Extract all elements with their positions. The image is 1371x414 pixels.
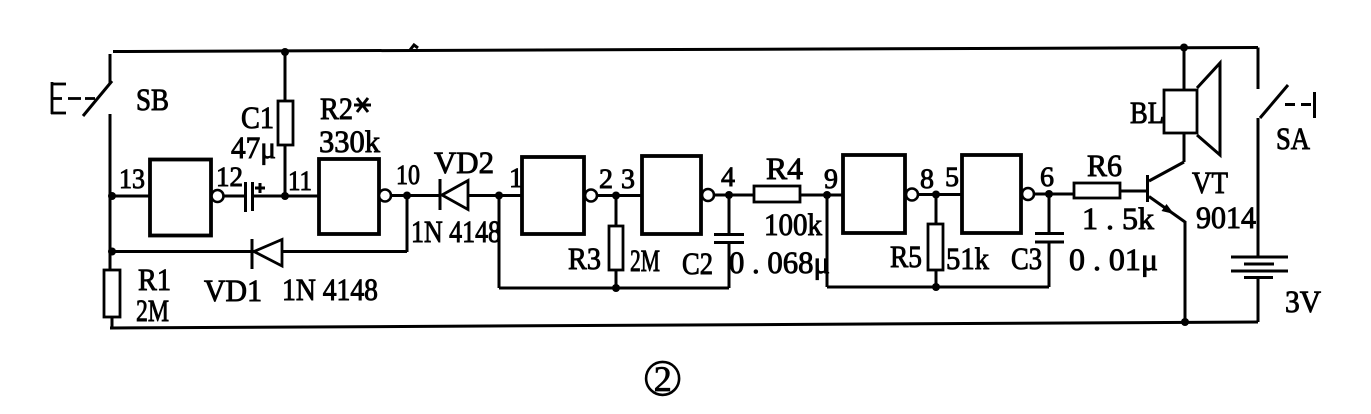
svg-text:4: 4 xyxy=(721,162,735,193)
svg-text:47μ: 47μ xyxy=(231,130,276,165)
svg-text:12: 12 xyxy=(216,162,243,193)
svg-text:BL: BL xyxy=(1130,95,1164,130)
svg-text:9: 9 xyxy=(824,164,838,195)
svg-text:VD1: VD1 xyxy=(204,273,262,308)
svg-text:9014: 9014 xyxy=(1196,200,1256,235)
svg-text:1: 1 xyxy=(509,163,523,194)
svg-text:2: 2 xyxy=(654,359,672,399)
svg-text:330k: 330k xyxy=(319,124,380,159)
svg-text:VT: VT xyxy=(1192,165,1228,200)
svg-text:2M: 2M xyxy=(136,293,169,328)
svg-text:C2: C2 xyxy=(682,246,713,281)
svg-text:10: 10 xyxy=(396,160,420,191)
svg-text:2M: 2M xyxy=(630,243,660,278)
svg-text:100k: 100k xyxy=(764,207,822,242)
svg-text:C3: C3 xyxy=(1011,241,1042,276)
svg-text:3: 3 xyxy=(621,164,635,195)
svg-text:6: 6 xyxy=(1040,162,1054,193)
svg-text:8: 8 xyxy=(920,164,934,195)
svg-text:R2: R2 xyxy=(320,91,353,126)
svg-text:R6: R6 xyxy=(1087,148,1122,183)
svg-text:0 . 068μ: 0 . 068μ xyxy=(729,245,830,280)
svg-text:R1: R1 xyxy=(138,262,171,297)
svg-text:1 . 5k: 1 . 5k xyxy=(1082,201,1155,236)
svg-text:2: 2 xyxy=(599,164,613,195)
svg-text:1N 4148: 1N 4148 xyxy=(411,214,501,249)
svg-text:SB: SB xyxy=(136,82,169,117)
svg-text:VD2: VD2 xyxy=(434,145,494,180)
svg-text:R3: R3 xyxy=(568,241,601,276)
svg-text:3V: 3V xyxy=(1285,284,1322,319)
svg-text:SA: SA xyxy=(1276,121,1311,156)
svg-text:R5: R5 xyxy=(890,239,922,274)
svg-text:13: 13 xyxy=(119,164,145,195)
svg-text:11: 11 xyxy=(288,166,312,197)
svg-text:5: 5 xyxy=(945,162,959,193)
svg-text:R4: R4 xyxy=(766,151,804,186)
svg-text:0 . 01μ: 0 . 01μ xyxy=(1069,242,1158,277)
svg-text:51k: 51k xyxy=(946,241,989,276)
svg-text:1N 4148: 1N 4148 xyxy=(282,272,378,307)
